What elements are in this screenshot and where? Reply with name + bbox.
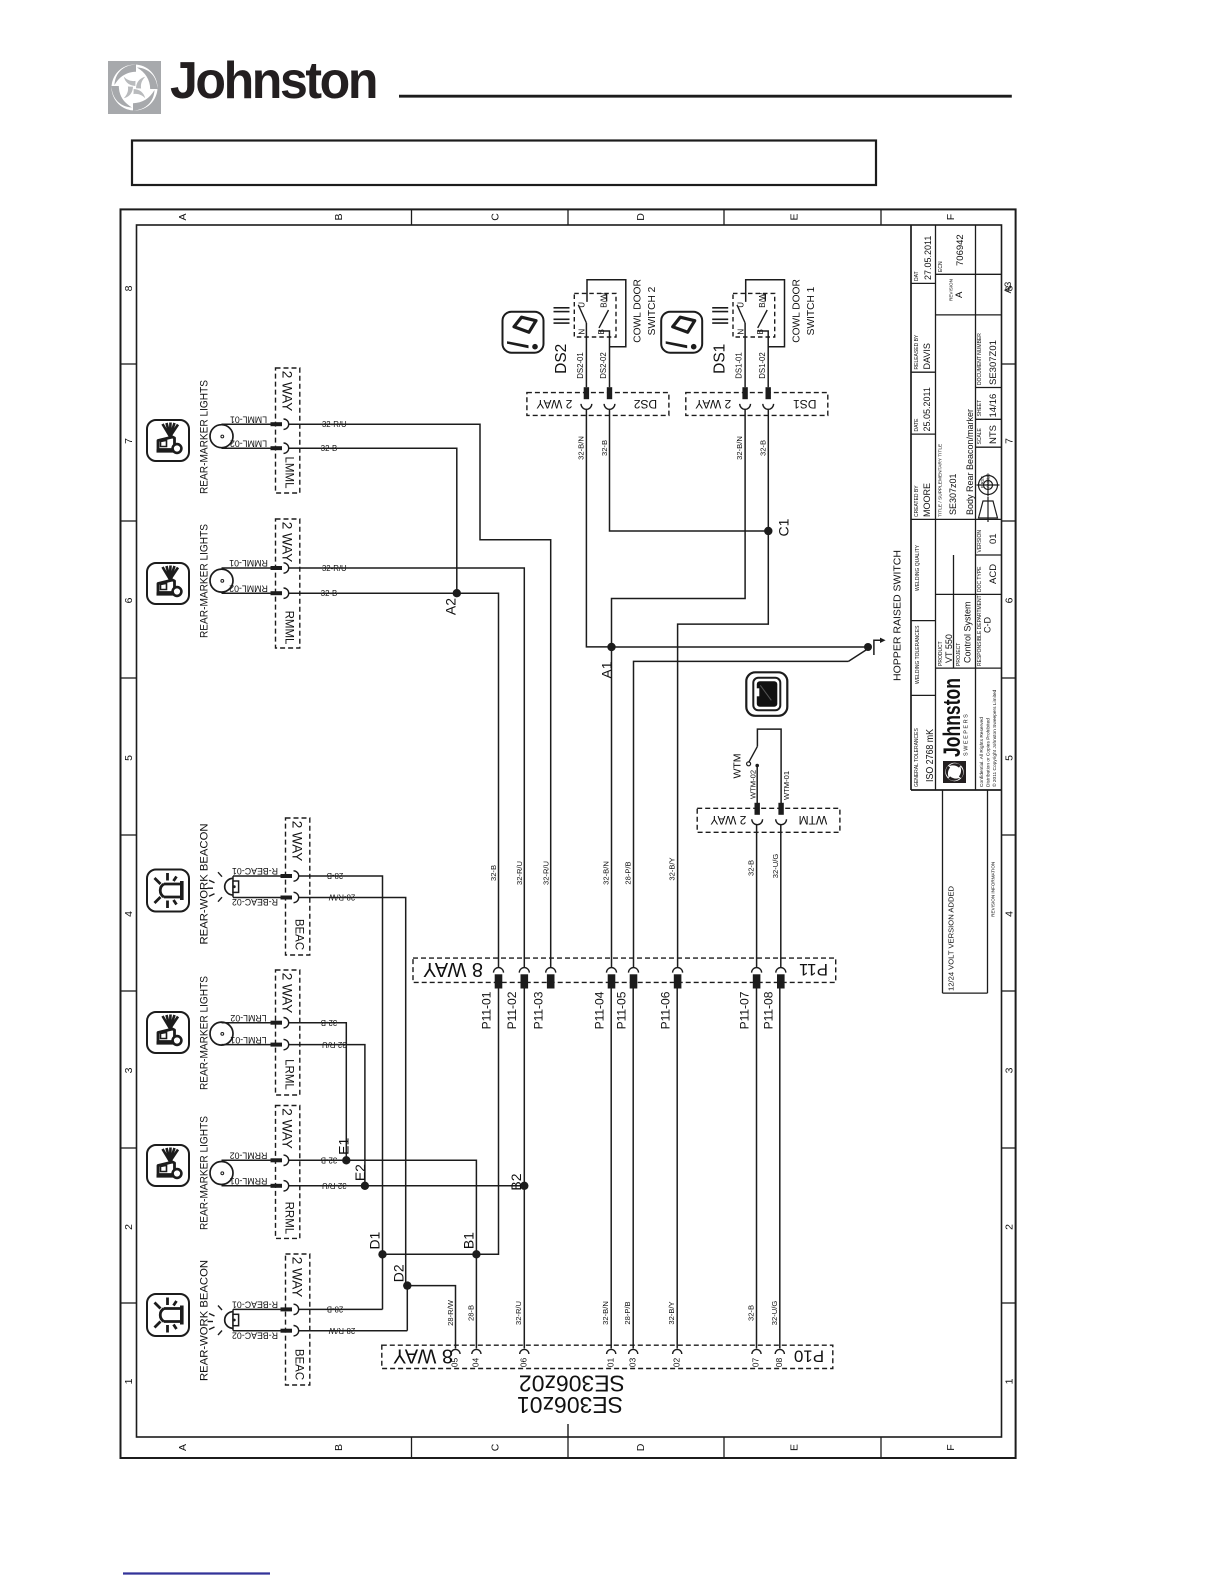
pin DS1-02 bbox=[766, 387, 771, 399]
svg-text:R-BEAC-01: R-BEAC-01 bbox=[232, 866, 278, 876]
connector DS1 2 WAY box bbox=[686, 393, 828, 416]
svg-text:D1: D1 bbox=[367, 1231, 383, 1249]
wire DS1-02 32-B down to C1 bbox=[767, 409, 769, 531]
wire LMML 32-B to node A2 bbox=[289, 448, 457, 593]
svg-text:WTM-01: WTM-01 bbox=[782, 771, 791, 800]
pin P11-07 bbox=[752, 968, 762, 973]
wire LRML leads bbox=[222, 1022, 271, 1024]
wire DS2-01 32-B/N down to A1 line bbox=[586, 409, 611, 647]
pin P11-01 bbox=[494, 968, 504, 973]
wire lower beacon 28-R/W to D2 bbox=[299, 1330, 408, 1332]
empty title box bbox=[132, 141, 876, 186]
svg-text:WTM: WTM bbox=[731, 753, 743, 778]
hopper switch blade bbox=[848, 650, 866, 661]
svg-text:28-R/W: 28-R/W bbox=[446, 1299, 455, 1326]
wire RMML 32-B through A2 to P11-01 bbox=[289, 593, 499, 967]
wire RMML 32-R/U to P11-02 bbox=[289, 568, 525, 967]
svg-text:P11-06: P11-06 bbox=[658, 991, 672, 1029]
wire P11-08 down to P10-08 bbox=[779, 989, 781, 1349]
svg-text:07: 07 bbox=[751, 1358, 761, 1368]
lamp bulb RRML bbox=[210, 1162, 233, 1185]
pin P11-04 bbox=[607, 968, 617, 973]
node C1 bbox=[764, 527, 772, 535]
node D1 bbox=[378, 1250, 386, 1258]
svg-text:4: 4 bbox=[123, 911, 135, 917]
svg-text:7: 7 bbox=[1003, 438, 1015, 444]
svg-text:RMML-02: RMML-02 bbox=[229, 583, 268, 593]
node A2 bbox=[453, 589, 461, 597]
svg-text:NTS: NTS bbox=[988, 425, 999, 444]
svg-text:2: 2 bbox=[123, 1224, 135, 1230]
drawing frame outer border bbox=[121, 209, 1016, 1458]
svg-text:12/24 VOLT VERSION ADDED: 12/24 VOLT VERSION ADDED bbox=[947, 885, 956, 991]
svg-text:ACD: ACD bbox=[988, 564, 999, 584]
lamp bulb LMML bbox=[210, 425, 233, 448]
svg-text:5: 5 bbox=[1003, 755, 1015, 761]
svg-text:P11: P11 bbox=[799, 960, 828, 979]
cowl door switch DS2 icon bbox=[503, 312, 544, 353]
svg-text:P11-02: P11-02 bbox=[505, 991, 519, 1029]
switch DS2 mechanical link dashes bbox=[554, 307, 570, 309]
svg-text:DS2: DS2 bbox=[634, 397, 658, 411]
svg-text:S W E E P E R S: S W E E P E R S bbox=[964, 714, 970, 756]
svg-text:WELDING TOLERANCES: WELDING TOLERANCES bbox=[915, 625, 921, 684]
pin P10-08 bbox=[775, 1349, 784, 1354]
pin P11-06 bbox=[673, 968, 683, 973]
svg-text:BEAC: BEAC bbox=[292, 919, 304, 950]
svg-text:LRML-01: LRML-01 bbox=[230, 1035, 266, 1045]
svg-text:32-R/U: 32-R/U bbox=[514, 1301, 523, 1325]
svg-text:P11-08: P11-08 bbox=[762, 991, 776, 1029]
svg-text:REAR-MARKER LIGHTS: REAR-MARKER LIGHTS bbox=[198, 524, 210, 638]
svg-text:REAR-MARKER LIGHTS: REAR-MARKER LIGHTS bbox=[198, 976, 210, 1090]
svg-text:RRML-02: RRML-02 bbox=[230, 1150, 268, 1160]
svg-text:6: 6 bbox=[123, 597, 135, 603]
connector DS2 2 WAY box bbox=[527, 393, 669, 416]
svg-text:Johnston: Johnston bbox=[939, 678, 966, 757]
svg-text:D2: D2 bbox=[390, 1264, 406, 1282]
wire D2 horizontal to P10-05 bbox=[407, 1286, 455, 1349]
switch DS1 dashed body bbox=[733, 293, 775, 337]
svg-text:05: 05 bbox=[450, 1358, 460, 1368]
connector BEAC 2 WAY box (lower) bbox=[286, 1254, 310, 1385]
wire P11-06 down to P10-02 bbox=[676, 989, 678, 1349]
svg-text:COWL DOOR: COWL DOOR bbox=[791, 279, 802, 343]
switch DS1 mechanical link dashes bbox=[712, 307, 728, 309]
svg-text:P11-01: P11-01 bbox=[479, 991, 493, 1029]
connector RRML 2 WAY box bbox=[276, 1106, 300, 1239]
wire C1 down and left to P11-06 bbox=[678, 531, 769, 967]
svg-text:A1: A1 bbox=[599, 661, 615, 678]
svg-text:32-B/N: 32-B/N bbox=[601, 1301, 610, 1325]
wire LRML 32-R/U to node E2 bbox=[289, 1045, 365, 1186]
pin P10-07 bbox=[752, 1349, 761, 1354]
svg-text:28-B: 28-B bbox=[467, 1305, 476, 1321]
svg-text:01: 01 bbox=[988, 533, 999, 544]
svg-text:B1: B1 bbox=[460, 1232, 476, 1249]
svg-text:REVISION INFORMATION: REVISION INFORMATION bbox=[990, 862, 995, 917]
svg-text:4: 4 bbox=[1003, 911, 1015, 917]
svg-text:8: 8 bbox=[123, 285, 135, 291]
svg-text:Confidential. All Rights Reser: Confidential. All Rights Reserved bbox=[979, 717, 985, 787]
wire D2 down to lower beacon 28-R/W bbox=[406, 1286, 408, 1331]
svg-text:C: C bbox=[489, 1443, 501, 1451]
svg-text:RRML-01: RRML-01 bbox=[230, 1176, 268, 1186]
svg-text:02: 02 bbox=[671, 1358, 681, 1368]
svg-text:© 2011 Copyright Johnston Swee: © 2011 Copyright Johnston Sweepers Limit… bbox=[991, 689, 998, 787]
svg-text:2 WAY: 2 WAY bbox=[536, 397, 572, 411]
node E2 bbox=[361, 1182, 369, 1190]
switch DS2 dashed body bbox=[574, 293, 616, 337]
lamp bulb RMML bbox=[210, 569, 233, 592]
svg-text:WTM-02: WTM-02 bbox=[749, 770, 758, 799]
svg-text:SE307z01: SE307z01 bbox=[948, 473, 958, 515]
svg-text:Distribution or Copies Prohibi: Distribution or Copies Prohibited bbox=[986, 718, 992, 787]
wire P11-07 down to P10-07 bbox=[756, 989, 758, 1349]
pin P10-06 bbox=[520, 1349, 529, 1354]
svg-text:32-B/Y: 32-B/Y bbox=[667, 1301, 676, 1324]
svg-text:ISO 2768 mK: ISO 2768 mK bbox=[925, 729, 936, 782]
wire B1 down to P10-04 bbox=[475, 1254, 477, 1348]
svg-text:7: 7 bbox=[123, 438, 135, 444]
svg-text:E: E bbox=[788, 1444, 800, 1451]
header rule bbox=[399, 95, 1012, 98]
wire DS1-01 32-B/N down and left to A1 vertical bbox=[612, 409, 746, 647]
svg-text:2 WAY: 2 WAY bbox=[290, 1257, 305, 1298]
icon: rear-marker lights LRML bbox=[147, 1012, 189, 1053]
svg-text:DS2: DS2 bbox=[553, 344, 570, 374]
svg-text:REAR-MARKER LIGHTS: REAR-MARKER LIGHTS bbox=[198, 380, 210, 494]
svg-text:32-B/N: 32-B/N bbox=[601, 861, 610, 885]
connector P10 8 WAY box bbox=[382, 1345, 833, 1368]
svg-text:B2: B2 bbox=[508, 1173, 524, 1190]
svg-text:LMML-02: LMML-02 bbox=[230, 438, 267, 448]
svg-text:REAR-WORK BEACON: REAR-WORK BEACON bbox=[198, 1260, 210, 1381]
svg-text:08: 08 bbox=[774, 1358, 784, 1368]
wire A1 line to hopper switch contact bbox=[612, 646, 869, 648]
wire WTM-02 32-B down to P11-07 bbox=[756, 825, 758, 968]
svg-text:ECN: ECN bbox=[938, 261, 944, 272]
svg-text:A2: A2 bbox=[443, 598, 459, 615]
svg-text:14/16: 14/16 bbox=[988, 394, 999, 418]
wire P11-04 down to P10-01 bbox=[610, 989, 612, 1349]
connector RMML 2 WAY box bbox=[276, 519, 300, 648]
icon: rear-work beacon (lower) bbox=[147, 1294, 189, 1336]
svg-text:DATE: DATE bbox=[914, 418, 920, 432]
svg-text:C: C bbox=[489, 213, 501, 221]
svg-text:SWITCH 2: SWITCH 2 bbox=[647, 286, 658, 335]
svg-text:P11-03: P11-03 bbox=[532, 991, 546, 1029]
wire RRML 32-B line through E1 down to B1 bbox=[289, 1160, 477, 1254]
svg-text:2 WAY: 2 WAY bbox=[290, 821, 305, 862]
drawing frame inner border bbox=[137, 225, 1002, 1437]
svg-text:32-B: 32-B bbox=[746, 1305, 755, 1321]
svg-text:25.05.2011: 25.05.2011 bbox=[922, 387, 932, 431]
node A1 bbox=[607, 643, 615, 651]
svg-text:B: B bbox=[333, 213, 345, 220]
svg-text:SWITCH 1: SWITCH 1 bbox=[806, 286, 817, 335]
svg-text:32-U/G: 32-U/G bbox=[771, 854, 780, 879]
svg-text:E2: E2 bbox=[352, 1164, 368, 1181]
svg-text:REAR-WORK BEACON: REAR-WORK BEACON bbox=[198, 823, 210, 944]
svg-text:D: D bbox=[635, 1443, 647, 1451]
wire BEAC upper leads bbox=[233, 875, 281, 877]
svg-text:LMML-01: LMML-01 bbox=[230, 414, 267, 424]
connector LMML 2 WAY box bbox=[276, 368, 300, 493]
lamp bulb LRML bbox=[210, 1022, 233, 1045]
pin P11-02 bbox=[519, 968, 529, 973]
svg-text:SE306z01: SE306z01 bbox=[517, 1392, 623, 1418]
leader line below SE306z01 bbox=[567, 1424, 569, 1437]
WTM icon bbox=[746, 672, 787, 716]
icon: rear-marker lights LMML bbox=[147, 420, 189, 461]
wire LRML 32-B to node E1 bbox=[289, 1023, 347, 1161]
WTM switch bbox=[757, 729, 781, 803]
svg-text:LRML: LRML bbox=[282, 1059, 294, 1090]
svg-text:8 WAY: 8 WAY bbox=[423, 958, 483, 980]
wire lower beacon 28-B to D1 bbox=[299, 1308, 383, 1310]
svg-text:SHEET: SHEET bbox=[977, 400, 983, 417]
icon: rear-marker lights RMML bbox=[147, 563, 189, 604]
svg-text:GENERAL TOLERANCES: GENERAL TOLERANCES bbox=[914, 728, 920, 787]
svg-text:DAT: DAT bbox=[914, 271, 920, 281]
svg-text:VT 550: VT 550 bbox=[944, 634, 954, 663]
svg-text:32-U/G: 32-U/G bbox=[770, 1301, 779, 1326]
svg-text:F: F bbox=[945, 214, 957, 220]
pin P10-01 bbox=[607, 1349, 616, 1354]
svg-text:3: 3 bbox=[123, 1067, 135, 1073]
wire DS2-02 32-B across to C1 bbox=[610, 409, 769, 531]
svg-text:R-BEAC-02: R-BEAC-02 bbox=[232, 1330, 278, 1340]
svg-text:DAVIS: DAVIS bbox=[922, 343, 932, 369]
hopper switch actuator arrow bbox=[874, 640, 881, 655]
svg-text:BEAC: BEAC bbox=[292, 1349, 304, 1380]
zone dividers left/right bands bbox=[121, 363, 137, 365]
wire LMML 32-R/U to P11-03 bbox=[289, 424, 551, 967]
connector BEAC 2 WAY box (upper) bbox=[286, 818, 310, 955]
svg-text:LMML: LMML bbox=[282, 457, 294, 490]
wire RMML leads bbox=[222, 567, 271, 569]
svg-text:VERSION: VERSION bbox=[977, 530, 983, 553]
wire upper beacon 28-R/W down to node D2 bbox=[299, 898, 406, 1286]
svg-text:32-B: 32-B bbox=[747, 860, 756, 876]
wire P11-01 down to junction row, to B1 and D1 bbox=[383, 989, 499, 1255]
svg-text:E1: E1 bbox=[335, 1138, 351, 1155]
svg-text:28-P/B: 28-P/B bbox=[623, 1301, 632, 1324]
pin P10-04 bbox=[472, 1349, 481, 1354]
node B1 bbox=[472, 1250, 480, 1258]
svg-text:03: 03 bbox=[627, 1358, 637, 1368]
pin DS2-02 bbox=[607, 387, 612, 399]
svg-text:2 WAY: 2 WAY bbox=[280, 1108, 295, 1149]
svg-text:REVISION: REVISION bbox=[949, 279, 954, 301]
svg-text:DOC TYPE: DOC TYPE bbox=[977, 566, 983, 592]
wire D1 down to lower beacon 28-B bbox=[382, 1254, 384, 1309]
wire RRML 32-R/U line through E2 to B2 bbox=[289, 1185, 525, 1187]
svg-text:E: E bbox=[788, 213, 800, 220]
svg-text:A3: A3 bbox=[1003, 282, 1014, 294]
svg-text:06: 06 bbox=[518, 1358, 528, 1368]
wire P11-02 down through B2 to P10-06 bbox=[523, 989, 525, 1349]
wire LMML leads bbox=[222, 423, 271, 425]
svg-text:32-B/N: 32-B/N bbox=[735, 436, 744, 460]
svg-text:LRML-02: LRML-02 bbox=[230, 1013, 266, 1023]
svg-text:DS1-02: DS1-02 bbox=[758, 352, 767, 378]
pin P10-02 bbox=[673, 1349, 682, 1354]
svg-text:32-B/Y: 32-B/Y bbox=[668, 857, 677, 880]
svg-text:A: A bbox=[177, 213, 189, 220]
wire BEAC lower leads bbox=[233, 1308, 281, 1310]
svg-text:DS1: DS1 bbox=[712, 344, 729, 374]
svg-text:D: D bbox=[635, 213, 647, 221]
svg-text:RELEASED BY: RELEASED BY bbox=[914, 334, 920, 369]
zone dividers top/bottom bands bbox=[411, 209, 413, 225]
svg-text:2: 2 bbox=[1003, 1224, 1015, 1230]
pin P11-03 bbox=[546, 968, 556, 973]
svg-text:P11-05: P11-05 bbox=[614, 991, 628, 1029]
icon: rear-work beacon (upper) bbox=[147, 870, 189, 912]
svg-text:DOCUMENT NUMBER: DOCUMENT NUMBER bbox=[977, 333, 983, 385]
Johnston logo mark (grey swirl square) bbox=[108, 61, 161, 114]
svg-text:A: A bbox=[177, 1444, 189, 1451]
connector P11 8 WAY box bbox=[413, 958, 836, 982]
svg-text:WELDING QUALITY: WELDING QUALITY bbox=[915, 544, 921, 591]
pin DS2-01 bbox=[584, 387, 589, 399]
svg-text:2 WAY: 2 WAY bbox=[695, 397, 731, 411]
wire WTM-01 32-U/G down to P11-08 bbox=[780, 825, 782, 968]
pin P10-03 bbox=[629, 1349, 638, 1354]
svg-text:P11-07: P11-07 bbox=[737, 991, 751, 1029]
hopper switch contact dot bbox=[864, 643, 872, 651]
svg-text:REAR-MARKER LIGHTS: REAR-MARKER LIGHTS bbox=[198, 1116, 210, 1230]
svg-text:P11-04: P11-04 bbox=[592, 991, 606, 1029]
node B2 bbox=[520, 1182, 528, 1190]
svg-text:27.05.2011: 27.05.2011 bbox=[923, 236, 933, 280]
svg-text:C-D: C-D bbox=[983, 617, 993, 633]
svg-text:3: 3 bbox=[1003, 1067, 1015, 1073]
pin P11-05 bbox=[629, 968, 639, 973]
svg-text:PROJECT: PROJECT bbox=[956, 643, 962, 666]
svg-text:HOPPER RAISED SWITCH: HOPPER RAISED SWITCH bbox=[891, 550, 903, 681]
svg-text:N: N bbox=[736, 329, 745, 335]
svg-text:COWL DOOR: COWL DOOR bbox=[633, 279, 644, 343]
svg-text:N: N bbox=[578, 329, 587, 335]
svg-text:TITLE / SUPPLEMENTARY TITLE: TITLE / SUPPLEMENTARY TITLE bbox=[938, 444, 944, 517]
revision information strip bbox=[942, 790, 944, 993]
svg-text:01: 01 bbox=[605, 1358, 615, 1368]
svg-text:32-B: 32-B bbox=[758, 440, 767, 456]
pin P10-05 bbox=[451, 1349, 460, 1354]
svg-text:32-R/U: 32-R/U bbox=[541, 861, 550, 885]
wire P11-05 up to hopper switch blade line bbox=[634, 661, 849, 967]
svg-text:5: 5 bbox=[123, 755, 135, 761]
svg-text:R-BEAC-02: R-BEAC-02 bbox=[232, 897, 278, 907]
svg-text:P10: P10 bbox=[794, 1347, 824, 1366]
svg-text:A: A bbox=[954, 291, 965, 298]
icon: rear-marker lights RRML bbox=[147, 1145, 189, 1186]
connector WTM 2 WAY box bbox=[697, 808, 840, 832]
svg-text:SE307Z01: SE307Z01 bbox=[988, 340, 999, 385]
svg-text:6: 6 bbox=[1003, 597, 1015, 603]
svg-text:Body Rear Beacon/marker: Body Rear Beacon/marker bbox=[965, 409, 975, 515]
wire P11-05 down to P10-03 bbox=[632, 989, 634, 1349]
wire RRML leads bbox=[222, 1159, 271, 1161]
svg-text:SCALE: SCALE bbox=[977, 427, 983, 444]
svg-text:Control System: Control System bbox=[963, 601, 973, 663]
svg-text:2 WAY: 2 WAY bbox=[280, 973, 295, 1014]
svg-text:DS1-01: DS1-01 bbox=[735, 352, 744, 378]
svg-text:2 WAY: 2 WAY bbox=[280, 522, 295, 563]
svg-text:DS2-02: DS2-02 bbox=[599, 352, 608, 378]
title block: Johnston sweepers logo bbox=[943, 761, 966, 783]
svg-text:RMML: RMML bbox=[282, 611, 294, 645]
cowl door switch DS1 icon bbox=[661, 312, 702, 353]
svg-text:R-BEAC-01: R-BEAC-01 bbox=[232, 1300, 278, 1310]
node E1 bbox=[342, 1156, 350, 1164]
pin WTM-01 bbox=[778, 803, 783, 815]
svg-text:CREATED BY: CREATED BY bbox=[914, 485, 920, 517]
beacon lamp (lower) bbox=[232, 1309, 234, 1330]
svg-text:RMML-01: RMML-01 bbox=[229, 558, 268, 568]
pin DS1-01 bbox=[742, 387, 747, 399]
pin WTM-02 bbox=[755, 803, 760, 815]
svg-text:04: 04 bbox=[470, 1358, 480, 1368]
svg-text:8 WAY: 8 WAY bbox=[393, 1345, 453, 1367]
pin P11-08 bbox=[776, 968, 786, 973]
svg-text:DS1: DS1 bbox=[793, 397, 817, 411]
connector LRML 2 WAY box bbox=[276, 970, 300, 1095]
svg-text:WTM: WTM bbox=[799, 813, 828, 827]
svg-text:Johnston: Johnston bbox=[170, 52, 376, 110]
svg-text:F: F bbox=[945, 1444, 957, 1450]
svg-text:B: B bbox=[333, 1444, 345, 1451]
wire P11-04 vertical (A1 to P11-04) bbox=[611, 647, 613, 967]
beacon lamp (upper) bbox=[232, 876, 234, 897]
svg-text:32-B: 32-B bbox=[600, 440, 609, 456]
svg-text:DS2-01: DS2-01 bbox=[576, 352, 585, 378]
footer link line bbox=[123, 1572, 270, 1574]
svg-text:706942: 706942 bbox=[955, 234, 966, 266]
svg-text:2 WAY: 2 WAY bbox=[280, 371, 295, 412]
svg-text:28-P/B: 28-P/B bbox=[623, 861, 632, 884]
svg-text:32-B: 32-B bbox=[489, 865, 498, 881]
svg-text:C1: C1 bbox=[776, 518, 792, 536]
title block grid bbox=[910, 225, 912, 790]
node D2 bbox=[403, 1281, 411, 1289]
svg-text:RRML: RRML bbox=[282, 1202, 294, 1235]
wire upper beacon 28-B down to node D1 bbox=[299, 876, 383, 1254]
svg-text:1: 1 bbox=[123, 1378, 135, 1384]
svg-text:32-B/N: 32-B/N bbox=[576, 436, 585, 460]
svg-text:2 WAY: 2 WAY bbox=[710, 813, 746, 827]
svg-text:32-R/U: 32-R/U bbox=[515, 861, 524, 885]
svg-text:1: 1 bbox=[1003, 1378, 1015, 1384]
svg-text:MOORE: MOORE bbox=[922, 483, 932, 517]
